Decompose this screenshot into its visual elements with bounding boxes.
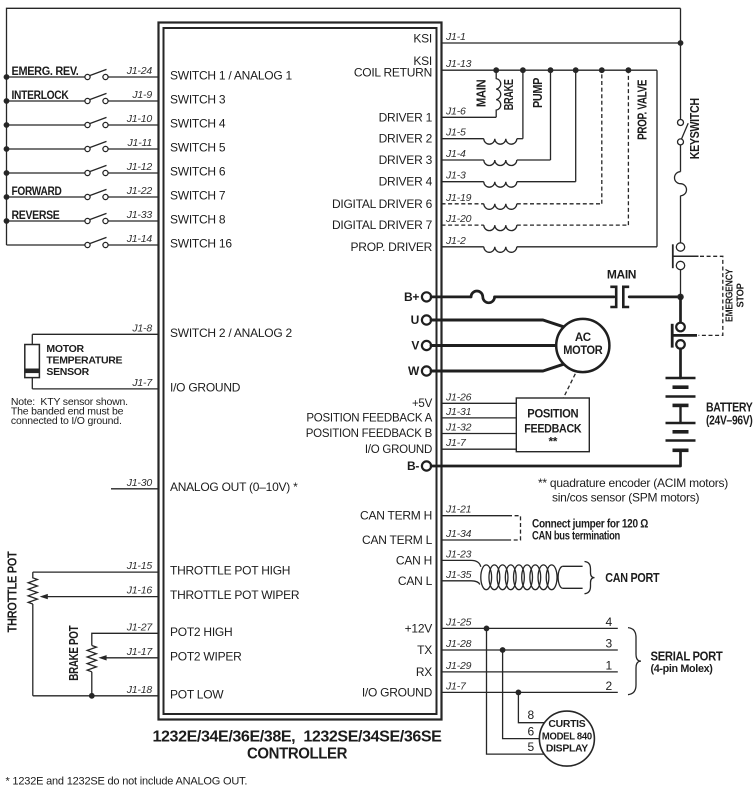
wire J1-5 coil to riser bbox=[517, 138, 523, 140]
svg-text:J1-29: J1-29 bbox=[445, 660, 472, 672]
svg-text:+12V: +12V bbox=[405, 621, 433, 635]
svg-text:THROTTLE POT: THROTTLE POT bbox=[6, 551, 20, 633]
pin name KSI COIL RETURN bbox=[354, 54, 432, 79]
svg-text:KEYSWITCH: KEYSWITCH bbox=[688, 98, 702, 159]
wire J1-26 to feedback box bbox=[442, 402, 517, 404]
wire breaker to estop contact bbox=[680, 196, 682, 243]
svg-text:DIGITAL DRIVER 6: DIGITAL DRIVER 6 bbox=[332, 197, 433, 211]
svg-text:2: 2 bbox=[606, 679, 613, 693]
svg-text:J1-8: J1-8 bbox=[131, 322, 152, 334]
svg-text:J1-33: J1-33 bbox=[126, 209, 153, 221]
wire switch common bus to keyswitch (top) bbox=[7, 8, 681, 245]
svg-text:SWITCH 2 / ANALOG 2: SWITCH 2 / ANALOG 2 bbox=[170, 326, 293, 340]
svg-text:SWITCH 5: SWITCH 5 bbox=[170, 141, 226, 155]
junction TX / display bbox=[500, 647, 506, 653]
svg-text:B-: B- bbox=[407, 459, 419, 473]
wire row 6 bus to switch S6 bbox=[7, 196, 85, 198]
wire row 1 bus to switch S1 bbox=[7, 76, 85, 78]
svg-text:J1-7: J1-7 bbox=[445, 437, 467, 449]
wire J1-16 pot wiper bbox=[47, 596, 159, 598]
svg-text:DRIVER 4: DRIVER 4 bbox=[379, 175, 433, 189]
coil on J1-2 line bbox=[484, 247, 517, 253]
wire J1-8 sensor to box bbox=[32, 333, 158, 335]
junction coil bus x=522.9 bbox=[520, 67, 526, 73]
svg-text:J1-3: J1-3 bbox=[445, 170, 466, 182]
svg-text:J1-24: J1-24 bbox=[126, 65, 153, 77]
svg-text:RX: RX bbox=[416, 665, 432, 679]
svg-text:COIL RETURN: COIL RETURN bbox=[354, 65, 432, 79]
svg-text:CAN TERM L: CAN TERM L bbox=[362, 533, 433, 547]
coil on J1-3 line bbox=[484, 182, 517, 188]
coil on J1-4 line bbox=[484, 160, 517, 166]
wire W to motor bbox=[431, 364, 564, 371]
svg-text:J1-5: J1-5 bbox=[445, 127, 466, 139]
svg-text:J1-12: J1-12 bbox=[126, 161, 153, 173]
wire node to estop lower contact bbox=[679, 297, 682, 322]
label BATTERY (24V-96V) bbox=[706, 401, 753, 428]
svg-text:SWITCH 16: SWITCH 16 bbox=[170, 237, 232, 251]
junction coil bus x=601.8 bbox=[599, 67, 605, 73]
svg-text:REVERSE: REVERSE bbox=[12, 208, 60, 222]
svg-text:J1-13: J1-13 bbox=[445, 58, 472, 70]
svg-text:FEEDBACK: FEEDBACK bbox=[524, 422, 582, 436]
potentiometer brake pot R2 bbox=[87, 646, 96, 672]
wire row 7 bus to switch S7 bbox=[7, 220, 85, 222]
svg-text:THROTTLE POT HIGH: THROTTLE POT HIGH bbox=[170, 564, 290, 578]
svg-text:MOTOR: MOTOR bbox=[563, 345, 603, 357]
svg-text:J1-20: J1-20 bbox=[445, 213, 472, 225]
svg-text:** quadrature encoder (ACIM mo: ** quadrature encoder (ACIM motors) bbox=[538, 476, 728, 490]
wire switch S4 to pin J1-11 bbox=[108, 148, 158, 150]
svg-text:POT2 WIPER: POT2 WIPER bbox=[170, 649, 242, 663]
emergency stop linkage (dashed) bbox=[699, 256, 723, 335]
coil on J1-19 line bbox=[484, 204, 517, 210]
svg-text:I/O GROUND: I/O GROUND bbox=[170, 380, 241, 394]
contactor coil MAIN (vertical) bbox=[496, 70, 501, 117]
junction pot low / brake pot bbox=[89, 693, 95, 699]
wire row 8 bus to switch S8 bbox=[7, 244, 85, 246]
wire row 3 bus to switch S3 bbox=[7, 124, 85, 126]
junction coil bus x=628.4 bbox=[626, 67, 632, 73]
coil on J1-5 line bbox=[484, 139, 517, 145]
junction coil bus x=575.7 bbox=[573, 67, 579, 73]
wire J1-32 to feedback box bbox=[442, 433, 517, 435]
switch S5 (SWITCH 6) bbox=[85, 165, 108, 175]
wire sensor top lead bbox=[31, 334, 33, 344]
svg-text:STOP: STOP bbox=[735, 283, 747, 307]
contactor MAIN contact bbox=[610, 287, 629, 307]
wire switch S8 to pin J1-14 bbox=[108, 244, 158, 246]
wire switch S7 to pin J1-33 bbox=[108, 220, 158, 222]
svg-text:J1-11: J1-11 bbox=[127, 137, 153, 149]
wire riser J1-3 to coil bus bbox=[575, 70, 577, 182]
svg-text:1: 1 bbox=[606, 658, 613, 672]
svg-text:POSITION FEEDBACK A: POSITION FEEDBACK A bbox=[306, 413, 432, 425]
wire J1-29 serial bbox=[442, 671, 618, 673]
svg-text:Connect jumper for 120 Ω: Connect jumper for 120 Ω bbox=[532, 519, 648, 531]
switch S3 (SWITCH 4) bbox=[85, 117, 108, 127]
svg-text:J1-25: J1-25 bbox=[445, 616, 472, 628]
potentiometer throttle pot R1 bbox=[28, 572, 37, 604]
junction switch bus row 5 bbox=[4, 170, 10, 176]
svg-text:DRIVER 1: DRIVER 1 bbox=[379, 110, 433, 124]
svg-text:DISPLAY: DISPLAY bbox=[546, 742, 588, 754]
note CAN termination bbox=[532, 519, 648, 543]
switch S6 (FORWARD) bbox=[85, 189, 108, 199]
svg-text:SWITCH 8: SWITCH 8 bbox=[170, 213, 226, 227]
wire J1-4 coil to riser bbox=[517, 159, 551, 161]
svg-text:CONTROLLER: CONTROLLER bbox=[247, 746, 347, 763]
svg-text:ANALOG OUT (0–10V) *: ANALOG OUT (0–10V) * bbox=[170, 480, 298, 494]
wire prop driver riser bbox=[656, 70, 658, 247]
wire switch S5 to pin J1-12 bbox=[108, 172, 158, 174]
svg-text:POT LOW: POT LOW bbox=[170, 687, 224, 701]
motor M1 (AC MOTOR) bbox=[556, 319, 609, 372]
svg-text:DRIVER 2: DRIVER 2 bbox=[379, 132, 433, 146]
svg-text:J1-16: J1-16 bbox=[126, 585, 153, 597]
wire J1-23 can h bbox=[442, 560, 481, 566]
wire riser J1-20 to coil bus bbox=[627, 70, 629, 225]
svg-text:J1-34: J1-34 bbox=[445, 528, 472, 540]
switch S1 (EMERG. REV.) bbox=[85, 69, 108, 79]
svg-text:B+: B+ bbox=[404, 290, 419, 304]
svg-text:J1-32: J1-32 bbox=[445, 422, 472, 434]
circuit breaker CB1 bbox=[675, 172, 687, 196]
svg-text:sin/cos sensor (SPM motors): sin/cos sensor (SPM motors) bbox=[552, 491, 700, 505]
svg-text:CURTIS: CURTIS bbox=[548, 718, 585, 730]
junction switch bus row 2 bbox=[4, 98, 10, 104]
switch S8 (SWITCH 16) bbox=[85, 237, 108, 247]
wire switch S2 to pin J1-9 bbox=[108, 100, 158, 102]
junction switch bus row 1 bbox=[4, 74, 10, 80]
svg-text:J1-1: J1-1 bbox=[445, 31, 466, 43]
svg-text:EMERG. REV.: EMERG. REV. bbox=[12, 64, 79, 78]
svg-text:CAN TERM H: CAN TERM H bbox=[360, 509, 432, 523]
svg-text:J1-9: J1-9 bbox=[131, 89, 152, 101]
wire display pin 8 from ground bbox=[518, 692, 544, 722]
svg-text:KSI: KSI bbox=[413, 32, 432, 46]
svg-text:U: U bbox=[411, 313, 419, 327]
wire J1-30 stub bbox=[111, 488, 158, 490]
twisted pair CAN cable bbox=[481, 565, 557, 590]
svg-text:BATTERY: BATTERY bbox=[706, 401, 753, 415]
emergency stop contact (upper) bbox=[673, 243, 699, 270]
svg-text:I/O GROUND: I/O GROUND bbox=[362, 685, 433, 699]
wire J1-34 can term l bbox=[442, 539, 509, 541]
jumper 120 ohm (dashed) bbox=[508, 516, 521, 540]
svg-text:MAIN: MAIN bbox=[475, 79, 489, 107]
svg-text:4: 4 bbox=[606, 615, 613, 629]
svg-text:J1-7: J1-7 bbox=[445, 680, 467, 692]
terminal V bbox=[422, 341, 431, 350]
wire J1-19 box to coil bbox=[442, 203, 484, 205]
wire J1-6 driver 1 bbox=[442, 116, 497, 118]
controller U1 outer box bbox=[159, 23, 442, 720]
terminal B- bbox=[422, 461, 431, 470]
wire row 5 bus to switch S5 bbox=[7, 172, 85, 174]
wire brake pot bottom bbox=[91, 672, 93, 696]
junction coil bus / main coil bbox=[493, 67, 499, 73]
svg-text:J1-6: J1-6 bbox=[445, 105, 466, 117]
svg-text:J1-35: J1-35 bbox=[445, 569, 472, 581]
wire J1-27 pot2 high bbox=[92, 633, 158, 645]
svg-text:PROP. VALVE: PROP. VALVE bbox=[636, 80, 650, 140]
wire J1-15 pot high bbox=[33, 571, 158, 573]
wire J1-7 serial bbox=[442, 691, 618, 693]
svg-text:MAIN: MAIN bbox=[607, 268, 636, 282]
wire riser J1-19 to coil bus bbox=[601, 70, 603, 204]
svg-text:SWITCH 6: SWITCH 6 bbox=[170, 165, 226, 179]
svg-text:FORWARD: FORWARD bbox=[12, 184, 63, 198]
note quadrature encoder bbox=[538, 476, 728, 505]
svg-text:AC: AC bbox=[575, 332, 591, 344]
svg-text:TEMPERATURE: TEMPERATURE bbox=[46, 355, 122, 367]
wire switch S6 to pin J1-22 bbox=[108, 196, 158, 198]
brace CAN port bbox=[585, 562, 595, 594]
svg-text:SWITCH 1 / ANALOG 1: SWITCH 1 / ANALOG 1 bbox=[170, 69, 293, 83]
svg-text:PROP. DRIVER: PROP. DRIVER bbox=[351, 240, 433, 254]
svg-text:(24V–96V): (24V–96V) bbox=[706, 414, 753, 428]
wire J1-17 pot2 wiper bbox=[106, 657, 159, 659]
svg-text:8: 8 bbox=[528, 708, 535, 722]
svg-text:J1-7: J1-7 bbox=[131, 377, 153, 389]
CAN cable end bbox=[558, 566, 582, 588]
svg-text:J1-28: J1-28 bbox=[445, 638, 472, 650]
wire keyswitch drop bbox=[680, 8, 682, 119]
brace serial port bbox=[628, 628, 641, 695]
wire riser J1-4 to coil bus bbox=[550, 70, 552, 160]
svg-text:BRAKE POT: BRAKE POT bbox=[67, 625, 81, 681]
wire J1-7 to feedback box bbox=[442, 448, 517, 450]
junction ground / display bbox=[516, 690, 522, 696]
svg-text:5: 5 bbox=[528, 740, 535, 754]
svg-text:J1-19: J1-19 bbox=[445, 192, 472, 204]
svg-text:TX: TX bbox=[417, 643, 432, 657]
wire J1-3 coil to riser bbox=[517, 181, 576, 183]
wire row 4 bus to switch S4 bbox=[7, 148, 85, 150]
svg-text:J1-27: J1-27 bbox=[126, 621, 154, 633]
throttle pot wiper arrow bbox=[40, 594, 48, 599]
svg-text:J1-2: J1-2 bbox=[445, 235, 466, 247]
terminal U bbox=[422, 315, 431, 324]
svg-text:J1-26: J1-26 bbox=[445, 391, 472, 403]
junction switch bus row 3 bbox=[4, 122, 10, 128]
terminal B+ bbox=[422, 292, 431, 301]
wire battery to B- terminal bbox=[431, 450, 680, 466]
svg-text:SERIAL PORT: SERIAL PORT bbox=[651, 649, 724, 663]
svg-text:PUMP: PUMP bbox=[531, 78, 545, 108]
svg-text:SENSOR: SENSOR bbox=[46, 366, 89, 378]
svg-text:MODEL 840: MODEL 840 bbox=[542, 730, 592, 742]
wire J1-21 can term h bbox=[442, 515, 509, 517]
wire riser J1-5 to coil bus bbox=[522, 70, 524, 139]
svg-text:V: V bbox=[411, 339, 419, 353]
wire display pin 5 from +12V bbox=[487, 628, 545, 754]
wire keyswitch to breaker bbox=[680, 145, 682, 172]
svg-text:THROTTLE POT WIPER: THROTTLE POT WIPER bbox=[170, 588, 300, 602]
display U3 (Curtis Model 840) bbox=[539, 711, 594, 766]
wire J1-4 box to coil bbox=[442, 159, 484, 161]
wire J1-31 to feedback box bbox=[442, 417, 517, 419]
junction switch bus row 6 bbox=[4, 194, 10, 200]
wire throttle pot bottom to pot low bbox=[32, 604, 34, 696]
wire J1-18 pot low bbox=[33, 695, 158, 697]
svg-text:J1-21: J1-21 bbox=[445, 504, 471, 516]
svg-text:(4-pin Molex): (4-pin Molex) bbox=[651, 663, 714, 675]
label EMERGENCY STOP bbox=[724, 269, 747, 322]
switch S7 (REVERSE) bbox=[85, 213, 108, 223]
wire switch S1 to pin J1-24 bbox=[108, 76, 158, 78]
svg-text:connected to I/O ground.: connected to I/O ground. bbox=[11, 415, 122, 427]
svg-text:CAN bus termination: CAN bus termination bbox=[532, 531, 620, 543]
wire J1-2 box to coil bbox=[442, 246, 484, 248]
wire display pin 6 from TX bbox=[503, 650, 540, 739]
svg-text:J1-18: J1-18 bbox=[126, 684, 153, 696]
svg-text:**: ** bbox=[548, 435, 557, 449]
svg-text:W: W bbox=[408, 364, 420, 378]
wire V to motor bbox=[431, 344, 556, 347]
wire J1-7 sensor to box bbox=[32, 388, 158, 390]
svg-text:6: 6 bbox=[528, 724, 535, 738]
svg-text:J1-23: J1-23 bbox=[445, 548, 472, 560]
svg-text:3: 3 bbox=[606, 636, 613, 650]
controller U1 inner box bbox=[164, 28, 437, 714]
svg-text:I/O GROUND: I/O GROUND bbox=[365, 444, 432, 456]
svg-text:CAN L: CAN L bbox=[398, 574, 433, 588]
motor temperature sensor RT1 bbox=[25, 345, 40, 378]
wire J1-20 box to coil bbox=[442, 224, 484, 226]
svg-text:CAN PORT: CAN PORT bbox=[605, 570, 659, 585]
junction +12V / display bbox=[484, 626, 490, 632]
label MOTOR TEMPERATURE SENSOR bbox=[46, 343, 122, 378]
position feedback encoder U2 bbox=[516, 398, 589, 452]
wire J1-35 can l bbox=[442, 581, 480, 585]
svg-text:DIGITAL DRIVER 7: DIGITAL DRIVER 7 bbox=[332, 218, 433, 232]
wire J1-5 box to coil bbox=[442, 138, 484, 140]
coil on J1-20 line bbox=[484, 225, 517, 231]
svg-text:SWITCH 3: SWITCH 3 bbox=[170, 93, 226, 107]
junction switch bus row 4 bbox=[4, 146, 10, 152]
wire J1-2 coil to riser bbox=[517, 246, 657, 248]
battery BT1 (24V-96V) bbox=[666, 378, 696, 450]
wire J1-28 serial bbox=[442, 649, 618, 651]
terminal W bbox=[422, 366, 431, 375]
svg-text:POT2 HIGH: POT2 HIGH bbox=[170, 625, 232, 639]
wire estop to battery bbox=[679, 349, 682, 378]
fuse F1 (S-bump) bbox=[471, 291, 495, 303]
wire sensor bottom lead bbox=[31, 378, 33, 389]
wire B+ to fuse bbox=[431, 296, 471, 299]
emergency stop contact (lower, power) bbox=[672, 323, 697, 349]
wire switch S3 to pin J1-10 bbox=[108, 124, 158, 126]
wire J1-25 serial bbox=[442, 627, 618, 629]
svg-text:POSITION FEEDBACK B: POSITION FEEDBACK B bbox=[306, 428, 433, 440]
svg-text:DRIVER 3: DRIVER 3 bbox=[379, 153, 433, 167]
switch S4 (SWITCH 5) bbox=[85, 141, 108, 151]
svg-text:CAN H: CAN H bbox=[396, 553, 432, 567]
svg-text:J1-10: J1-10 bbox=[126, 113, 153, 125]
svg-text:J1-4: J1-4 bbox=[445, 148, 466, 160]
wire coil return bus bbox=[442, 69, 658, 71]
junction KSI / keyswitch line bbox=[678, 40, 684, 46]
keyswitch S9 bbox=[678, 120, 689, 145]
junction switch bus row 7 bbox=[4, 218, 10, 224]
wire estop contact to B+ node bbox=[680, 270, 682, 297]
wire J1-20 coil to riser bbox=[517, 224, 629, 226]
svg-text:MOTOR: MOTOR bbox=[46, 343, 84, 355]
svg-text:J1-31: J1-31 bbox=[445, 406, 471, 418]
svg-text:J1-17: J1-17 bbox=[126, 646, 154, 658]
wire fuse to main contactor bbox=[495, 296, 614, 299]
svg-text:* 1232E and 1232SE do not incl: * 1232E and 1232SE do not include ANALOG… bbox=[6, 776, 248, 788]
svg-text:BRAKE: BRAKE bbox=[502, 79, 516, 110]
svg-text:+5V: +5V bbox=[412, 398, 433, 410]
wire main contactor to battery node bbox=[629, 296, 680, 299]
svg-text:SWITCH 4: SWITCH 4 bbox=[170, 117, 226, 131]
svg-text:J1-30: J1-30 bbox=[126, 477, 153, 489]
wire row 2 bus to switch S2 bbox=[7, 100, 85, 102]
svg-text:SWITCH 7: SWITCH 7 bbox=[170, 189, 226, 203]
svg-text:J1-14: J1-14 bbox=[126, 233, 153, 245]
switch S2 (INTERLOCK) bbox=[85, 93, 108, 103]
junction coil bus x=550.5 bbox=[548, 67, 554, 73]
junction B+ / keyswitch / battery bbox=[677, 294, 684, 301]
brake pot wiper arrow bbox=[98, 655, 106, 660]
note KTY sensor bbox=[11, 396, 128, 427]
wire KSI to keyswitch bbox=[442, 42, 681, 44]
label SERIAL PORT (4-pin Molex) bbox=[651, 649, 724, 675]
wire U to motor bbox=[431, 320, 564, 327]
svg-text:J1-15: J1-15 bbox=[126, 560, 153, 572]
wire J1-19 coil to riser bbox=[517, 203, 602, 205]
svg-text:J1-22: J1-22 bbox=[126, 185, 153, 197]
svg-text:INTERLOCK: INTERLOCK bbox=[12, 88, 70, 102]
wire motor to position feedback (dashed) bbox=[563, 374, 575, 398]
svg-text:1232E/34E/36E/38E, 1232SE/34S: 1232E/34E/36E/38E, 1232SE/34SE/36SE bbox=[153, 729, 442, 746]
wire J1-3 box to coil bbox=[442, 181, 484, 183]
svg-text:POSITION: POSITION bbox=[527, 407, 578, 421]
